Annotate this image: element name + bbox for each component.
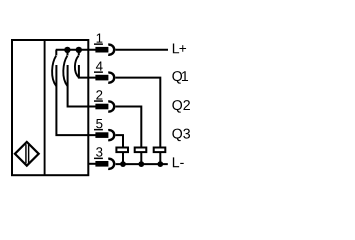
wire: L+ rail from switches to pin 1	[56, 49, 97, 51]
wire: box to pin 3	[88, 163, 97, 165]
label Q3	[172, 129, 190, 142]
pin 3 label	[96, 147, 102, 156]
pin 1 underline	[94, 43, 103, 45]
pin 2 underline	[94, 100, 103, 102]
pin 5 contact	[95, 132, 108, 138]
pin 5 underline	[94, 129, 103, 131]
switch S1 blade	[52, 56, 56, 86]
switch S2 stub	[67, 50, 69, 56]
junction dot A on rail	[64, 47, 70, 53]
wire: load R2 to L- bus	[140, 153, 142, 164]
wire: pin 5 to load R1	[116, 135, 124, 147]
pin 1 contact	[95, 47, 108, 53]
junction dot R2/L-	[138, 161, 144, 167]
switch S3 blade	[75, 56, 79, 78]
wire: load R3 to L- bus	[159, 153, 161, 164]
pin 2 socket arc	[108, 101, 114, 111]
wire: switch S1 output to pin 5	[56, 65, 96, 135]
pin 3 socket arc	[108, 159, 114, 169]
wire: switch S3 output to pin 4	[79, 65, 97, 78]
diamond inner bar right	[28, 144, 29, 163]
pin 4 contact	[95, 75, 108, 81]
label L+	[173, 44, 186, 54]
pin 2 contact	[95, 104, 108, 110]
wire: load R1 to L- bus	[122, 153, 124, 164]
sensor body divider	[44, 40, 46, 175]
switch S2 blade	[63, 56, 67, 86]
sensor body outline	[12, 40, 88, 175]
load R1	[116, 148, 128, 153]
wire: pin 2 to load R2	[116, 107, 142, 148]
pin 5 label	[96, 119, 102, 128]
wire: switch S2 output to pin 2	[68, 65, 97, 107]
pin 3 underline	[94, 157, 103, 159]
wire: pin 1 to L+	[116, 49, 169, 51]
inductive sensor diamond symbol	[15, 142, 39, 166]
label Q2	[172, 100, 190, 113]
switch S1 stub	[55, 50, 57, 56]
junction dot B on rail	[76, 47, 82, 53]
pin 2 label	[96, 90, 102, 99]
pin 5 socket arc	[108, 130, 114, 140]
pin 1 socket arc	[108, 45, 114, 55]
pin 1 label	[97, 34, 103, 43]
wire: pin 4 to load R3	[116, 78, 161, 148]
junction dot R1/L-	[120, 161, 126, 167]
wire: pin 3 L- bus	[116, 163, 168, 165]
junction dot R3/L-	[157, 161, 163, 167]
pin 3 contact	[95, 161, 108, 167]
label L-	[173, 157, 184, 167]
label Q1	[172, 71, 188, 84]
diamond inner bar left	[25, 144, 26, 163]
pin 4 label	[96, 62, 103, 71]
pin 4 socket arc	[108, 73, 114, 83]
switch S3 stub	[78, 50, 80, 56]
load R3	[154, 148, 166, 153]
load R2	[135, 148, 147, 153]
pin 4 underline	[94, 71, 103, 73]
